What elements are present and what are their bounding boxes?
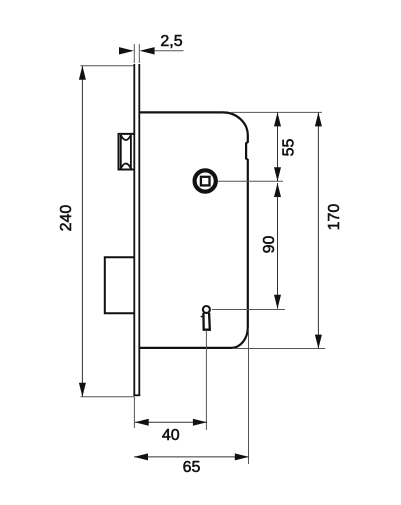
- faceplate right edge: [138, 64, 140, 396]
- extension body right vertical: [248, 328, 250, 464]
- svg-text:2,5: 2,5: [160, 33, 182, 50]
- extension keyhole vertical: [205, 330, 207, 430]
- faceplate left edge: [133, 64, 135, 396]
- arrow 40 left: [135, 419, 149, 426]
- keyhole shaft: [203, 313, 209, 330]
- latch bolt inner left: [120, 135, 122, 169]
- arrow 90 bottom: [274, 295, 281, 309]
- latch bottom arc: [121, 164, 131, 169]
- svg-text:240: 240: [58, 205, 75, 232]
- latch bolt inner right: [130, 135, 132, 169]
- dimension line 90: [277, 183, 279, 309]
- arrow 90 top: [274, 183, 281, 197]
- arrow 2,5 right: [140, 47, 155, 54]
- extension body top: [231, 111, 322, 113]
- dimension line 40: [135, 421, 207, 423]
- extension line 240 top: [81, 65, 135, 67]
- svg-text:90: 90: [261, 236, 278, 254]
- deadbolt: [105, 257, 135, 313]
- svg-text:65: 65: [183, 459, 201, 476]
- arrow 2,5 left: [119, 47, 134, 54]
- arrow 55 top: [274, 112, 281, 126]
- extension faceplate top left: [133, 44, 135, 63]
- faceplate bottom cap: [133, 394, 140, 396]
- dimension line 65: [134, 456, 249, 458]
- extension keyhole horizontal: [212, 309, 285, 311]
- svg-text:40: 40: [162, 427, 180, 444]
- keyhole notch: [201, 316, 204, 318]
- arrow 170 bottom: [315, 335, 322, 349]
- keyhole circle: [203, 306, 210, 313]
- extension line 240 bottom: [81, 396, 135, 398]
- dimension line 170: [317, 112, 319, 348]
- extension faceplate top right: [138, 44, 140, 63]
- latch top arc: [121, 135, 131, 140]
- dimension line 240: [81, 66, 83, 397]
- arrow 55 bottom: [274, 167, 281, 181]
- arrow 240 bottom: [79, 383, 86, 397]
- arrow 170 top: [315, 112, 322, 126]
- extension body bottom: [232, 348, 325, 350]
- latch bolt outer: [119, 134, 136, 170]
- arrow 40 right: [193, 419, 207, 426]
- arrow 65 right: [235, 453, 249, 460]
- lock body outline: [140, 112, 248, 348]
- dimension line 55: [277, 112, 279, 181]
- svg-text:55: 55: [280, 139, 297, 157]
- leader 2,5: [155, 50, 184, 52]
- svg-text:170: 170: [326, 204, 343, 231]
- arrow 65 left: [134, 453, 148, 460]
- spindle hub circle: [195, 170, 216, 191]
- extension hub line: [218, 180, 283, 182]
- arrow 240 top: [79, 66, 86, 80]
- extension faceplate bottom vertical: [133, 397, 135, 429]
- spindle hub square: [201, 177, 210, 186]
